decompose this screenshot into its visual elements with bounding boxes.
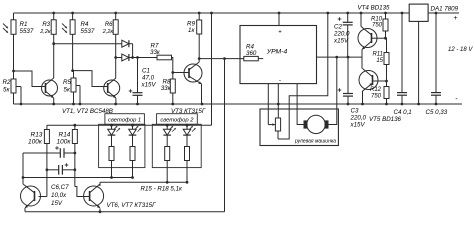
svg-text:5537: 5537 xyxy=(20,28,34,35)
svg-text:R4: R4 xyxy=(81,21,89,28)
wire traffic light 2 bus xyxy=(100,181,188,184)
svg-text:светофор 2: светофор 2 xyxy=(160,118,194,124)
svg-text:750: 750 xyxy=(371,94,382,100)
label VT1 VT2 type xyxy=(62,108,113,115)
svg-text:47,0: 47,0 xyxy=(142,75,155,82)
svg-text:R12: R12 xyxy=(370,87,382,93)
node A divider junction xyxy=(12,70,15,73)
box traffic light 2 label xyxy=(157,114,198,125)
svg-text:220,0: 220,0 xyxy=(350,115,367,122)
svg-text:VT3 КТ315Г: VT3 КТ315Г xyxy=(171,108,206,115)
wire VT4 emitter to output xyxy=(361,50,363,58)
resistor R12 750 xyxy=(370,81,389,104)
resistor R8 33k xyxy=(161,73,176,105)
motor servo xyxy=(304,115,329,133)
wire VT3 emitter to ground xyxy=(201,84,203,105)
label R15-R18 value xyxy=(141,186,184,193)
box traffic light 1 label xyxy=(105,114,144,125)
wire node B to VT2 base xyxy=(73,71,108,87)
wire URM-4 feedback pin to servo pot wiper xyxy=(268,84,275,126)
svg-text:R3: R3 xyxy=(42,22,50,28)
svg-text:C6,C7: C6,C7 xyxy=(51,184,69,191)
wire R7 to R8/VT3 base node xyxy=(171,58,174,74)
trimmer R5 5k xyxy=(63,71,80,104)
node VT3 collector / R9 xyxy=(198,57,201,60)
svg-text:15V: 15V xyxy=(51,200,63,207)
svg-text:750: 750 xyxy=(372,23,383,29)
capacitor C4 0.1 xyxy=(394,13,412,116)
wire VD1 cathode down to VD2 line xyxy=(131,44,134,59)
svg-text:х15V: х15V xyxy=(333,38,349,45)
wire +9V to LED bus xyxy=(211,13,213,125)
svg-text:100к: 100к xyxy=(57,139,72,146)
wire VT7 emitter down xyxy=(99,209,102,214)
svg-text:светофор 1: светофор 1 xyxy=(108,118,141,124)
transistor VT1 xyxy=(42,78,58,104)
transistor VT7 xyxy=(84,184,104,208)
wire LED supply bus xyxy=(47,124,212,127)
label battery plus xyxy=(453,15,457,22)
diode VD2 xyxy=(122,54,133,61)
svg-text:+: + xyxy=(278,30,282,36)
capacitor C1 47.0x15V xyxy=(129,56,157,104)
box traffic light 1 xyxy=(99,124,145,167)
svg-text:VT4 BD135: VT4 BD135 xyxy=(358,5,391,12)
wire VT5 collector to ground xyxy=(362,92,364,105)
node junction dots on +9V rail xyxy=(52,12,403,15)
svg-text:VT5 BD136: VT5 BD136 xyxy=(369,116,402,123)
resistor R15 5.1k xyxy=(109,135,114,177)
wire VT7 collector up xyxy=(99,182,101,186)
node B divider junction xyxy=(71,69,74,72)
resistor R17 5.1k xyxy=(165,135,170,182)
svg-text:C1: C1 xyxy=(142,68,150,75)
svg-text:5к: 5к xyxy=(3,87,10,94)
resistor R7 33k xyxy=(150,43,172,60)
svg-text:5к: 5к xyxy=(64,87,71,94)
resistor R18 5.1k xyxy=(185,135,190,182)
LED HL3 xyxy=(163,125,175,135)
transistor VT3 xyxy=(184,62,202,84)
transistor VT4 BD135 xyxy=(358,5,391,50)
wire multivibrator emitters riser xyxy=(224,59,226,212)
wire diode node to R7 xyxy=(133,57,157,59)
regulator DA1 7809 xyxy=(409,4,458,21)
svg-text:C3: C3 xyxy=(351,108,359,115)
svg-text:C4 0,1: C4 0,1 xyxy=(394,109,412,116)
wire VT6 collector up to C6 xyxy=(22,153,25,184)
svg-text:R15 - R18 5,1к: R15 - R18 5,1к xyxy=(141,186,184,193)
photoresistor R1 5537 xyxy=(3,13,34,71)
svg-text:VT1, VT2 BC548B: VT1, VT2 BC548B xyxy=(62,108,113,115)
wire R3 to VT1 collector xyxy=(53,34,55,78)
wire +9V drop to servo pot bottom xyxy=(278,13,328,139)
svg-text:УРМ-4: УРМ-4 xyxy=(266,49,288,56)
svg-text:R11: R11 xyxy=(372,52,383,58)
transistor VT2 xyxy=(104,78,120,104)
wire motor right brush to output xyxy=(329,57,337,124)
svg-text:R2: R2 xyxy=(3,79,11,86)
transistor VT6 xyxy=(21,184,41,208)
label battery minus xyxy=(455,96,458,103)
wire VT5 emitter to output xyxy=(361,57,363,68)
svg-text:33к: 33к xyxy=(161,85,172,92)
svg-text:х15V: х15V xyxy=(141,82,157,89)
wire URM-4 minus pin to ground and servo pot top xyxy=(277,84,279,118)
capacitor C6 10.0x15V xyxy=(23,146,76,158)
wire traffic light 1 bus xyxy=(23,176,134,179)
label VT3 type xyxy=(171,108,206,115)
svg-text:1к: 1к xyxy=(188,27,195,34)
label C6 C7 values xyxy=(51,184,69,207)
wire emitter bus xyxy=(25,211,225,213)
transistor VT5 BD136 xyxy=(359,69,402,124)
svg-text:R5: R5 xyxy=(63,79,71,86)
diode VD1 xyxy=(122,40,133,47)
capacitor C3 220.0x15V xyxy=(338,57,367,128)
capacitor C2 220.0x15V xyxy=(333,13,353,57)
svg-text:33к: 33к xyxy=(150,49,161,56)
resistor R14 100k xyxy=(57,125,78,186)
label battery voltage 12-18V xyxy=(448,47,473,53)
svg-text:10,0х: 10,0х xyxy=(51,192,67,199)
svg-text:R14: R14 xyxy=(59,132,71,139)
svg-text:2,2к: 2,2к xyxy=(102,29,114,35)
capacitor C5 0.33 xyxy=(426,13,448,116)
resistor R10 750 xyxy=(371,13,388,38)
svg-text:12 - 18 V: 12 - 18 V xyxy=(448,47,473,53)
node VT2 collector tap xyxy=(114,56,117,59)
svg-text:-: - xyxy=(279,77,281,84)
svg-text:DA1 7809: DA1 7809 xyxy=(431,6,459,13)
wire VT1 collector to VD1 xyxy=(54,43,122,45)
wire URM-4 motor pin to servo motor left brush xyxy=(297,84,303,125)
wire DA1 ground pin xyxy=(418,21,420,104)
resistor R9 1k xyxy=(187,13,202,59)
svg-text:100к: 100к xyxy=(28,139,43,146)
svg-text:C2: C2 xyxy=(334,24,342,31)
potentiometer servo feedback xyxy=(275,118,280,139)
node VT1 collector tap xyxy=(52,42,55,45)
svg-text:5537: 5537 xyxy=(81,28,95,35)
wire R8 node to VT3 base xyxy=(173,72,189,74)
wire R13 to VT6 base xyxy=(39,196,47,198)
resistor R4 360 inside URM-4 xyxy=(244,44,263,61)
resistor R11 15 xyxy=(372,38,389,81)
wire DA1 input from battery xyxy=(428,12,459,15)
capacitor C7 10.0x15V xyxy=(46,163,77,174)
svg-text:220,0: 220,0 xyxy=(333,31,350,38)
node VT5 base xyxy=(373,80,388,83)
svg-text:+: + xyxy=(453,15,457,22)
svg-text:2,2к: 2,2к xyxy=(39,29,51,35)
photoresistor R4 5537 xyxy=(62,13,95,71)
ground bottom rail xyxy=(14,103,463,105)
wire node A to VT1 base xyxy=(14,71,46,87)
resistor R3 2.2k xyxy=(39,13,56,35)
wire URM-4 plus pin to rail xyxy=(278,13,280,26)
node junction dots on ground rail xyxy=(20,103,438,106)
svg-text:R1: R1 xyxy=(20,21,28,28)
wire +9V top rail xyxy=(14,12,410,14)
svg-text:360: 360 xyxy=(246,50,257,57)
svg-text:15: 15 xyxy=(376,58,383,64)
wire URM-4 output to push-pull emitters xyxy=(317,56,363,59)
wire VT6 emitter down xyxy=(24,208,26,212)
svg-text:C5 0,33: C5 0,33 xyxy=(426,109,448,116)
box steering servo xyxy=(260,109,338,146)
svg-text:х15V: х15V xyxy=(350,122,366,129)
trimmer R2 5k xyxy=(3,71,22,104)
node VT4 base xyxy=(372,37,387,40)
node multivibrator feed tap xyxy=(223,57,226,60)
LED HL1 xyxy=(108,125,120,135)
LED HL2 xyxy=(129,125,141,135)
svg-text:рулевая машинка: рулевая машинка xyxy=(294,139,336,145)
resistor R6 2.2k xyxy=(102,13,118,35)
svg-text:R13: R13 xyxy=(31,132,43,139)
wire R14 to VT7 base xyxy=(75,187,90,197)
wire VT3 collector up xyxy=(198,59,200,62)
wire VT4 collector to +9V xyxy=(360,13,362,27)
module URM-4 xyxy=(240,26,317,85)
resistor R13 100k xyxy=(28,125,49,196)
wire VT2 collector to VD2 xyxy=(116,57,122,59)
svg-text:VT6, VT7 КТ315Г: VT6, VT7 КТ315Г xyxy=(107,202,157,209)
label VT6 VT7 type xyxy=(107,202,157,209)
wire R6 to VT2 collector xyxy=(115,34,117,78)
svg-text:R6: R6 xyxy=(105,22,113,28)
wire VT3 collector to URM-4 input xyxy=(199,58,244,60)
box traffic light 2 xyxy=(152,124,201,167)
LED HL4 xyxy=(183,125,195,135)
resistor R16 5.1k xyxy=(130,135,135,177)
